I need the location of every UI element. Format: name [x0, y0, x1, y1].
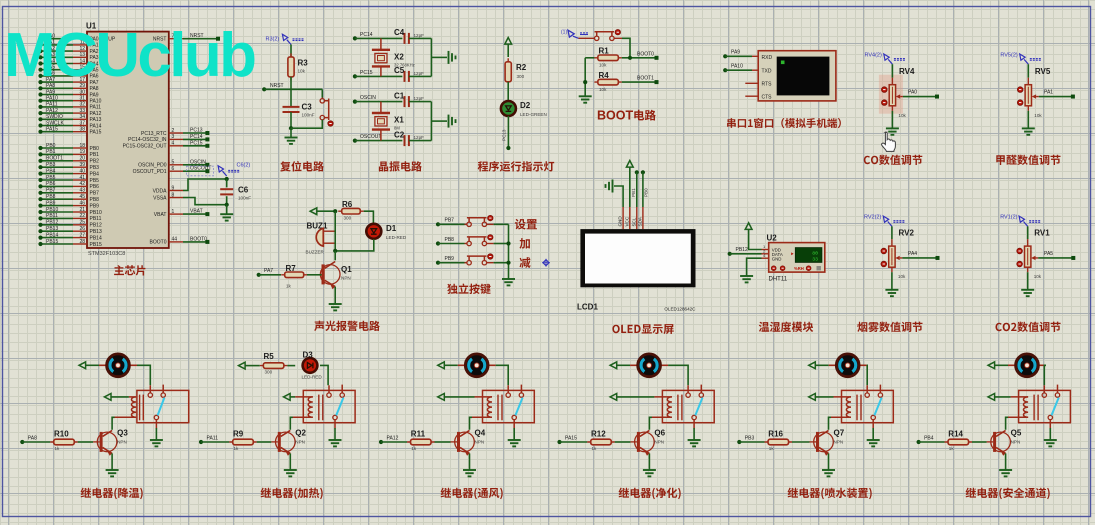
wire keys bus [508, 224, 510, 278]
svg-text:RXD: RXD [762, 55, 773, 61]
svg-text:C6: C6 [238, 186, 249, 195]
svg-text:PA9: PA9 [46, 89, 55, 95]
wire R4 to BOOT1 [622, 81, 655, 83]
label 继电器(加热) [261, 488, 323, 500]
svg-text:1k: 1k [592, 446, 598, 451]
capacitor C4 [405, 33, 409, 44]
svg-text:NPN: NPN [341, 276, 351, 281]
pin PA1 wire (pin 11) [41, 44, 74, 46]
svg-text:10k: 10k [1034, 113, 1042, 118]
resistor R1 [594, 57, 622, 59]
svg-text:R14: R14 [948, 430, 963, 439]
resistor R2 [507, 58, 509, 85]
ground relay pole heater [334, 428, 336, 440]
resistor R4 [594, 81, 622, 83]
label 复位电路 [280, 161, 324, 172]
wire power to node [317, 210, 335, 212]
svg-text:12pF: 12pF [414, 33, 425, 38]
svg-text:%RH: %RH [794, 266, 804, 271]
wire GND to rotated ground [614, 186, 623, 207]
svg-text:PB0: PB0 [90, 146, 100, 152]
svg-text:D3: D3 [303, 351, 314, 360]
label 晶振电路 [379, 161, 422, 171]
svg-text:39: 39 [79, 162, 85, 168]
pin VSSA wire (pin 8) [169, 197, 183, 199]
wire PA15 to R12 [560, 441, 588, 443]
wire NRST horizontal [264, 88, 322, 90]
svg-text:1k: 1k [769, 446, 775, 451]
wire Q6 emitter to ground [648, 453, 650, 469]
node PA11 [199, 440, 203, 444]
svg-text:CTS: CTS [762, 95, 773, 101]
wire button PB7 to bus [487, 223, 494, 225]
resistor R14 [945, 441, 973, 443]
wire VDD power [749, 229, 762, 249]
power arrow R5 [239, 362, 246, 369]
svg-text:OSCIN: OSCIN [360, 95, 376, 101]
pin PA12 wire (pin 33) [41, 112, 74, 114]
svg-text:PC15: PC15 [360, 70, 373, 76]
pin PA4 wire (pin 14) [41, 63, 74, 65]
display LCD1 OLED12864I2C [580, 229, 695, 287]
label 继电器(安全通道) [966, 488, 1050, 500]
svg-text:SCL: SCL [631, 217, 636, 226]
wire PA7 to R7 [259, 274, 281, 276]
power arrow relay coil M4 sprinkler [809, 394, 816, 401]
label 继电器(喷水装置) [788, 488, 872, 500]
svg-text:300: 300 [517, 74, 525, 79]
power arrow relay coil M1 cooling [104, 394, 111, 401]
svg-text:C2: C2 [394, 130, 405, 139]
pin PA10 wire (pin 31) [41, 100, 74, 102]
svg-text:PB7: PB7 [46, 188, 56, 194]
svg-text:PA12: PA12 [46, 108, 58, 114]
svg-text:43: 43 [79, 188, 85, 194]
svg-text:VBAT: VBAT [154, 212, 167, 218]
pin PA2 wire (pin 12) [41, 50, 74, 52]
svg-text:PA4: PA4 [908, 251, 917, 257]
svg-text:10k: 10k [599, 63, 607, 68]
wire coil top lead M3 purifier [617, 396, 655, 398]
svg-text:PB0: PB0 [643, 188, 648, 197]
wire RV5 top [1027, 64, 1029, 78]
capacitor C6 [226, 179, 228, 187]
wire R16 to Q7 base [792, 441, 810, 443]
pin PB9 wire (pin 46) [41, 205, 74, 207]
svg-text:4: 4 [172, 141, 175, 147]
label 程序运行指示灯 [478, 161, 555, 172]
power arrow OLED VCC [626, 161, 633, 168]
pin PB7 wire (pin 43) [41, 192, 74, 194]
svg-text:PB2: PB2 [90, 159, 100, 165]
svg-text:PB1: PB1 [46, 149, 56, 155]
node collector junction [333, 249, 337, 253]
wire R12 to Q6 base [615, 441, 631, 443]
transistor Q7 [810, 430, 834, 455]
svg-text:VDDA: VDDA [153, 188, 168, 194]
wire Q7 emitter to ground [828, 453, 830, 469]
svg-text:RV1: RV1 [1034, 228, 1050, 237]
resistor R7 [281, 274, 307, 276]
wire PA11 to R9 [201, 441, 229, 443]
svg-text:PB3: PB3 [90, 165, 100, 171]
svg-text:3: 3 [172, 134, 175, 140]
potentiometer RV4 [889, 85, 895, 106]
svg-text:26: 26 [79, 226, 85, 232]
ground OLED (rotated) [606, 180, 613, 193]
svg-text:PB14: PB14 [46, 232, 58, 238]
node BOOT0 junction [622, 57, 655, 59]
motor M1 cooling [99, 364, 107, 366]
wire motor to relay contact M3 purifier [668, 365, 688, 385]
svg-text:OSCOUT: OSCOUT [360, 134, 381, 140]
svg-text:PA0: PA0 [908, 90, 917, 96]
label 减 [520, 257, 531, 268]
pin PB11 wire (pin 22) [41, 217, 74, 219]
label 独立按键 [447, 284, 491, 295]
svg-text:PA7: PA7 [264, 268, 273, 274]
svg-text:38: 38 [79, 127, 85, 133]
wire R1 left rail [585, 57, 594, 59]
wire RV4 bottom [891, 106, 893, 111]
wire arrow to motor M2 fan [444, 364, 457, 366]
svg-text:PC13: PC13 [190, 128, 203, 134]
label 烟雾数值调节 [857, 322, 922, 333]
node PA15 [557, 440, 561, 444]
svg-text:(1): (1) [561, 30, 567, 36]
wire motor to relay contact M4 sprinkler [866, 365, 869, 385]
transistor Q2 [271, 430, 295, 455]
wire PB3 to R16 [739, 441, 764, 443]
wire coil bottom lead M1 cooling [114, 416, 136, 418]
svg-text:GND: GND [772, 256, 782, 261]
wire PB8 to button [438, 243, 465, 245]
svg-text:12pF: 12pF [414, 96, 425, 101]
wire RV4 top [891, 64, 893, 78]
svg-text:VCC: VCC [624, 216, 629, 226]
svg-text:SWCLK: SWCLK [46, 120, 64, 126]
pin SWDIO wire (pin 34) [41, 118, 74, 120]
wire PA12 to R11 [381, 441, 407, 443]
wire RV1 top [1027, 226, 1029, 239]
svg-text:SWDIO: SWDIO [46, 114, 63, 120]
svg-text:OSCOUT_PD1: OSCOUT_PD1 [133, 169, 167, 175]
svg-text:PB9: PB9 [445, 256, 455, 262]
label 声光报警电路 [314, 321, 380, 331]
power arrow buzzer [310, 208, 317, 215]
mouse cursor hand [882, 132, 896, 151]
ground DHT11 [740, 276, 753, 282]
ground crystal lower (rotated) [449, 115, 456, 128]
wire Q2 emitter to ground [289, 453, 291, 469]
wire PB7 to button [438, 223, 465, 225]
node NRST [262, 87, 266, 91]
svg-text:21: 21 [79, 207, 85, 213]
node VSSA junction [225, 203, 229, 207]
pin PA8 wire (pin 29) [41, 87, 74, 89]
ground RV1 [1021, 290, 1034, 296]
svg-text:R3(2): R3(2) [266, 37, 280, 43]
ground relay pole M5 safety [1049, 428, 1051, 440]
label 继电器(通风) [441, 488, 503, 500]
svg-text:Q3: Q3 [117, 428, 128, 437]
svg-text:40: 40 [79, 168, 85, 174]
svg-text:PB4: PB4 [46, 168, 56, 174]
wire D2 to PC13 node [507, 116, 509, 148]
resistor R11 [407, 441, 435, 443]
power arrow DHT11 [745, 223, 752, 230]
svg-text:BOOT1: BOOT1 [637, 76, 654, 82]
op-amp U1 main chip STM32F103C8 body [87, 32, 169, 248]
wire C4 to right rail [409, 37, 432, 39]
motor M2 fan [458, 364, 466, 366]
relay M1 cooling [137, 390, 189, 422]
node PC15 [353, 74, 357, 78]
pin PA6 wire (pin 16) [41, 75, 74, 77]
adjust buttons RV4 [882, 87, 888, 93]
wire coil bottom lead M4 sprinkler [831, 416, 852, 418]
pin RTS stub [745, 82, 758, 84]
relay M2 fan [483, 390, 535, 422]
wire R5 to D3 [287, 365, 295, 367]
ground RV4 [886, 128, 899, 134]
node bus junction 2 [506, 261, 510, 265]
wire OSCOUT to capacitor C2 [355, 140, 403, 142]
node OSCIN [353, 100, 357, 104]
wire R9 to Q2 base [257, 441, 272, 443]
svg-text:1k: 1k [949, 446, 955, 451]
pin PC15 wire (pin 4) [169, 145, 183, 147]
motor M4 sprinkler [829, 364, 837, 366]
wire C5 to right rail [409, 75, 432, 77]
svg-text:12pF: 12pF [414, 135, 425, 140]
push button 减 [467, 261, 471, 265]
node PA9 [723, 54, 727, 58]
wire coil bottom lead M5 safety [1008, 416, 1029, 418]
wire OSCIN to capacitor C1 [355, 101, 403, 103]
svg-text:PA15: PA15 [46, 127, 58, 133]
pin PC13 wire (pin 2) [169, 132, 183, 134]
potentiometer RV5 [1025, 85, 1031, 106]
wire arrow to motor M5 safety [995, 364, 1008, 366]
wire PB12 to DATA [730, 253, 762, 255]
resistor R10 [50, 441, 78, 443]
push button 设置 [467, 222, 471, 226]
wire R11 to Q4 base [435, 441, 451, 443]
svg-text:300: 300 [265, 370, 273, 375]
svg-text:25: 25 [79, 220, 85, 226]
wiper RV2 to PA4 [895, 256, 899, 260]
svg-text:PB1: PB1 [631, 188, 636, 197]
svg-text:PB13: PB13 [46, 226, 58, 232]
power arrow motor M1 cooling [79, 362, 86, 369]
wire arrow to motor M3 purifier [617, 364, 630, 366]
node OSCOUT [353, 139, 357, 143]
svg-text:PA12: PA12 [90, 111, 102, 117]
selection box OSCOUT [187, 166, 214, 176]
svg-text:VSSA: VSSA [153, 195, 167, 201]
svg-text:44: 44 [172, 237, 178, 243]
svg-text:RV4(2): RV4(2) [865, 53, 882, 59]
wire RV2 top [891, 226, 893, 239]
power arrow indicator [505, 38, 512, 45]
svg-text:RV1(2): RV1(2) [1000, 215, 1017, 221]
transistor Q3 [93, 430, 117, 455]
potentiometer RV1 [1025, 246, 1031, 267]
svg-text:STM32F103C8: STM32F103C8 [88, 251, 125, 257]
terminal BOOT0 [655, 56, 659, 60]
wire PA8 to R10 [22, 441, 50, 443]
wire to Q1 collector [334, 251, 336, 260]
ground Q7 [822, 470, 835, 476]
capacitor C3 [283, 107, 300, 112]
svg-text:PA9: PA9 [731, 50, 740, 56]
power arrow relay coil heater [284, 394, 291, 401]
label CO2数值调节 [996, 322, 1061, 332]
svg-text:U2: U2 [767, 234, 778, 243]
svg-text:PB6: PB6 [90, 184, 100, 190]
pin PB14 wire (pin 27) [41, 237, 74, 239]
crystal X1 [380, 102, 382, 113]
svg-text:PB4: PB4 [924, 435, 934, 441]
pin PA9 wire (pin 30) [41, 94, 74, 96]
svg-text:10k: 10k [1034, 274, 1042, 279]
pin BOOT1 wire (pin 20) [41, 160, 74, 162]
ground Q4 [463, 470, 476, 476]
svg-text:D1: D1 [386, 224, 397, 233]
wire GND down [747, 258, 762, 275]
svg-text:10k: 10k [298, 69, 306, 74]
LED D2 LED-GREEN [501, 101, 516, 116]
wire Q4 emitter to ground [469, 453, 471, 469]
svg-text:Q7: Q7 [834, 428, 845, 437]
resistor R16 [765, 441, 793, 443]
label CO数值调节 [864, 155, 923, 165]
diode D3 LED-RED [303, 358, 318, 373]
selection highlight [879, 75, 903, 114]
svg-text:R4: R4 [599, 71, 610, 80]
svg-text:PB10: PB10 [90, 210, 102, 216]
node PA8 [20, 440, 24, 444]
wire power to button [579, 37, 595, 39]
power arrow motor M2 fan [438, 362, 445, 369]
ground crystal upper (rotated) [449, 51, 456, 64]
transistor Q6 [630, 430, 654, 455]
svg-text:MCUclub: MCUclub [4, 21, 255, 90]
wire coil top lead heater [290, 396, 295, 398]
wire R3 to NRST node [290, 77, 292, 90]
svg-text:1: 1 [172, 209, 175, 215]
node PB3 [737, 440, 741, 444]
terminal BOOT1 [655, 80, 659, 84]
svg-text:BOOT: BOOT [597, 109, 633, 123]
svg-text:R6: R6 [342, 200, 353, 209]
svg-text:1k: 1k [411, 446, 417, 451]
crystal X2 [380, 38, 382, 49]
pin VBAT wire (pin 1) [169, 213, 183, 215]
pin PA11 wire (pin 32) [41, 106, 74, 108]
svg-text:10k: 10k [898, 113, 906, 118]
adjust buttons RV5 [1017, 87, 1023, 93]
svg-text:PB1: PB1 [90, 152, 100, 158]
svg-text:46: 46 [79, 200, 85, 206]
svg-text:C6(2): C6(2) [237, 163, 251, 169]
svg-text:9: 9 [172, 185, 175, 191]
svg-text:PB8: PB8 [445, 237, 455, 243]
svg-text:LCD1: LCD1 [577, 303, 598, 312]
wire R10 to Q3 base [78, 441, 93, 443]
wire motor to relay contact M1 cooling [137, 365, 150, 385]
LED D1 LED-RED [366, 224, 381, 239]
wire button to BOOT0 node [614, 37, 622, 39]
wire power to R5 [245, 365, 260, 367]
pin PB0 wire (pin 18) [41, 147, 74, 149]
svg-text:34: 34 [79, 114, 85, 120]
svg-text:NRST: NRST [270, 83, 284, 89]
wire coil bottom lead M3 purifier [651, 416, 672, 418]
wire R6 to D1 [364, 211, 374, 224]
pin PB13 wire (pin 26) [41, 230, 74, 232]
svg-text:GND: GND [618, 216, 623, 227]
svg-text:OSCIN_PD0: OSCIN_PD0 [138, 163, 167, 169]
svg-text:PC14-OSC32_IN: PC14-OSC32_IN [128, 137, 167, 143]
svg-text:1k: 1k [55, 446, 61, 451]
wire coil top lead M4 sprinkler [815, 396, 833, 398]
wire button PB9 to bus [487, 262, 494, 264]
node buzzer top junction [333, 209, 337, 213]
node PB9 [436, 261, 440, 265]
wiper RV5 to PA1 [1032, 94, 1036, 98]
pin PA0 wire (pin 10) [41, 38, 74, 40]
wire NRST down to C3 [290, 89, 292, 106]
motor M5 safety [1008, 364, 1016, 366]
svg-text:PA8: PA8 [28, 435, 37, 441]
svg-text:PB9: PB9 [90, 203, 100, 209]
svg-text:33: 33 [79, 108, 85, 114]
label 继电器(净化) [619, 488, 681, 500]
ground Q3 [106, 470, 119, 476]
wire PB4 to R14 [919, 441, 945, 443]
node PA10 [723, 68, 727, 72]
wire button bottom to C3 junction [291, 120, 322, 128]
svg-text:BOOT0: BOOT0 [150, 240, 167, 246]
wire VCC [629, 167, 631, 207]
svg-text:31: 31 [79, 96, 85, 102]
terminal PA0 [935, 95, 939, 99]
pin NRST wire (pin 7) [169, 38, 183, 40]
svg-text:LED-RED: LED-RED [302, 375, 323, 380]
svg-text:PB3: PB3 [745, 435, 755, 441]
node PC13 [506, 146, 510, 150]
node C3 bottom junction [289, 126, 293, 130]
svg-text:X2: X2 [394, 53, 404, 62]
ground relay pole M3 purifier [693, 428, 695, 440]
svg-text:PB15: PB15 [90, 242, 102, 248]
transistor Q4 [451, 430, 475, 455]
svg-text:45: 45 [79, 194, 85, 200]
wire SDA [642, 172, 644, 207]
svg-text:PC15: PC15 [190, 140, 203, 146]
wire coil top lead M5 safety [995, 396, 1011, 398]
svg-text:80: 80 [812, 250, 818, 256]
svg-text:PB8: PB8 [46, 194, 56, 200]
svg-text:2: 2 [172, 128, 175, 134]
svg-text:Q2: Q2 [295, 428, 306, 437]
power arrow relay coil M5 safety [988, 394, 995, 401]
wire D1 to lower junction [335, 239, 374, 251]
svg-text:PB11: PB11 [46, 213, 58, 219]
wire Q5 emitter to ground [1005, 453, 1007, 469]
